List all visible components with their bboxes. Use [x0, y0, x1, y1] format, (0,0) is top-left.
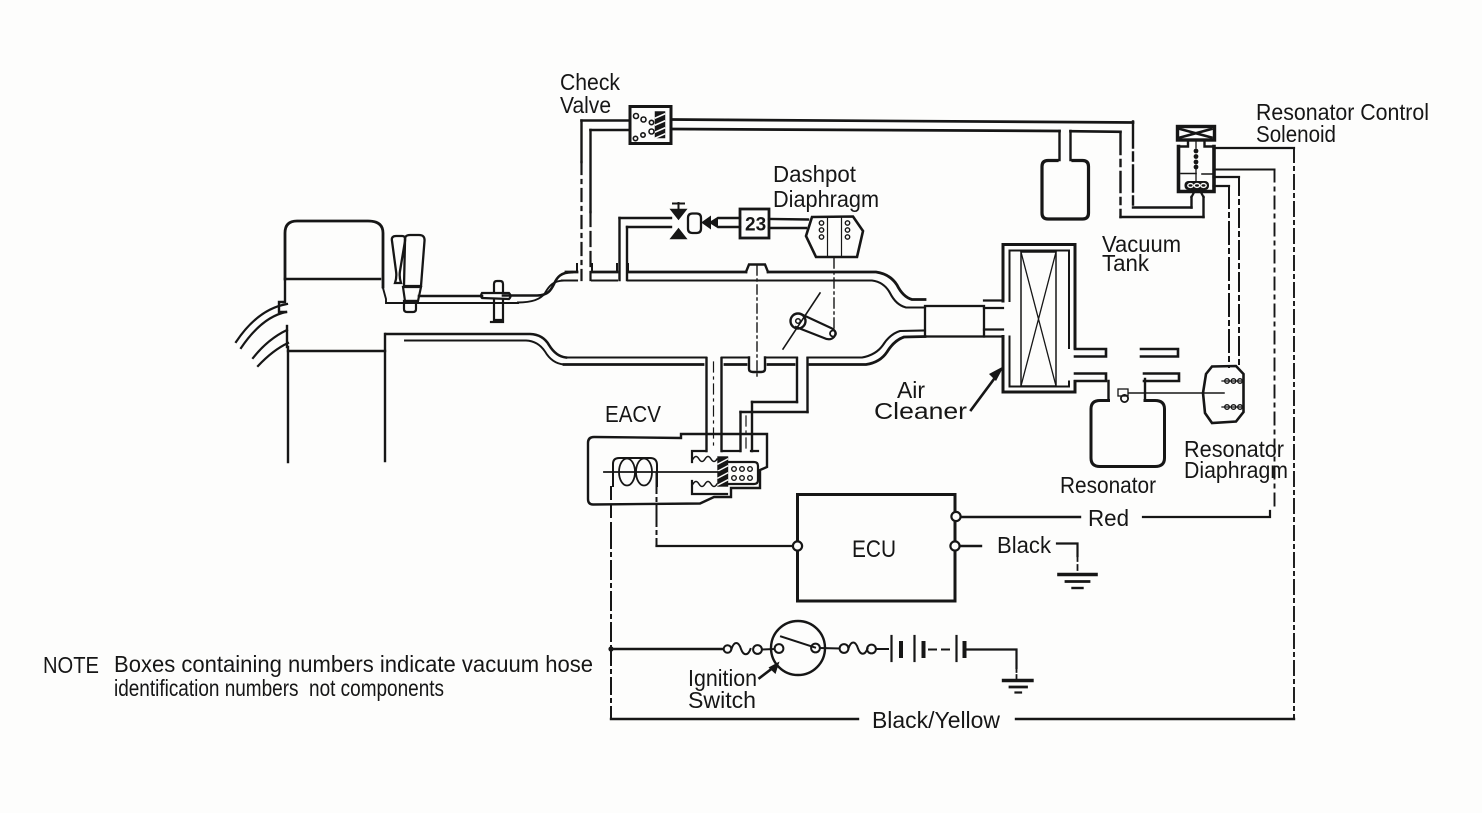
- svg-text:Resonator: Resonator: [1060, 472, 1156, 498]
- throttle lever arm: [796, 315, 835, 339]
- EACV wavy springs: [693, 457, 717, 462]
- svg-text:Diaphragm: Diaphragm: [1184, 457, 1288, 483]
- wire from distributor to throttle upper: [419, 295, 482, 298]
- check valve left wires: [582, 121, 631, 131]
- resonator linkage fitting: [1118, 389, 1128, 396]
- plenum top port bump: [746, 265, 768, 273]
- svg-text:ECU: ECU: [852, 536, 896, 563]
- vacuum tank inlet: [1060, 131, 1071, 160]
- svg-text:identification numbers not co: identification numbers not components: [114, 675, 444, 701]
- EACV coil: [613, 458, 657, 486]
- ECU terminals: [793, 541, 802, 550]
- tube to air cleaner: [984, 301, 1003, 337]
- solenoid top cap with X: [1178, 127, 1215, 141]
- svg-text:NOTE: NOTE: [43, 652, 99, 678]
- black/yellow wire: [611, 718, 1294, 720]
- dashpot diaphragm: [806, 217, 863, 258]
- svg-text:Boxes containing numbers indic: Boxes containing numbers indicate vacuum…: [114, 651, 593, 677]
- solenoid hose to resonator diaphragm: [1214, 177, 1240, 186]
- svg-text:Dashpot: Dashpot: [773, 161, 857, 187]
- resonator diaphragm hexagon: [1203, 366, 1244, 423]
- ground under black: [1059, 573, 1096, 577]
- engine lower runner to plenum throat bottom: [386, 334, 566, 358]
- solenoid wire to red: [1214, 169, 1275, 171]
- engine valve cover: [285, 221, 383, 287]
- resonator neck circle: [1121, 395, 1128, 402]
- solenoid body: [1179, 147, 1215, 192]
- throttle lever pivot: [791, 314, 806, 329]
- cross fitting lens: [481, 293, 511, 299]
- wire continues to plenum throat upper: [503, 272, 572, 295]
- fuse wave 2: [849, 643, 868, 654]
- port B collar ticks: [617, 264, 628, 272]
- tube coupler box: [925, 306, 984, 337]
- fuse c-circle: [724, 645, 732, 653]
- resonator body: [1091, 401, 1165, 467]
- throttle lever thin diagonal: [783, 293, 820, 349]
- air cleaner arrow: [971, 375, 997, 410]
- bowtie valve: [671, 210, 686, 220]
- battery: [890, 636, 892, 661]
- ignition switch circle: [771, 621, 825, 675]
- ECU box: [798, 495, 956, 602]
- EACV coil wire: [604, 471, 718, 473]
- plenum centre dash-dot line: [756, 266, 758, 380]
- hose corner down to solenoid bottom: [1132, 122, 1134, 208]
- svg-text:Valve: Valve: [560, 92, 611, 118]
- ground right: [1004, 679, 1033, 682]
- wire EACV to black/yellow row: [610, 649, 612, 719]
- dashpot hose pair from manifold port B: [620, 218, 628, 280]
- solenoid divider: [1181, 173, 1212, 176]
- svg-text:Diaphragm: Diaphragm: [773, 186, 879, 212]
- solenoid wire to black/yellow: [1214, 147, 1295, 149]
- svg-text:Solenoid: Solenoid: [1256, 121, 1336, 147]
- arrow to switch: [760, 667, 775, 678]
- svg-text:Cleaner: Cleaner: [874, 398, 967, 424]
- resonator linkage line: [1129, 392, 1224, 394]
- plenum top wall inner: [562, 281, 925, 308]
- EACV outline: [588, 434, 767, 505]
- manifold port2 hose jog to EACV: [797, 358, 808, 412]
- port A collar ticks: [577, 264, 592, 272]
- solenoid pellet band: [1185, 181, 1210, 190]
- hose to dashpot diaphragm: [769, 219, 808, 228]
- check valve hoses from manifold: [580, 121, 582, 163]
- solenoid coil dots: [1194, 149, 1199, 154]
- EACV wire A down to ignition row: [610, 487, 612, 530]
- engine intake curved hoses lower pair: [253, 330, 287, 358]
- EACV terminal block: [728, 462, 759, 484]
- svg-text:23: 23: [745, 215, 766, 236]
- double chevrons: [702, 217, 711, 229]
- vacuum tank: [1042, 161, 1089, 220]
- dash-dot line dashpot to lever: [833, 258, 835, 331]
- distributor connector block: [403, 287, 421, 301]
- svg-text:Red: Red: [1088, 505, 1129, 531]
- solenoid funnel: [1192, 192, 1204, 198]
- terminal circles: [753, 645, 762, 654]
- wire to ground: [967, 650, 1017, 669]
- cross fitting on wire: [494, 281, 503, 292]
- plenum top wall outer: [566, 272, 925, 300]
- plenum bottom wall inner: [566, 331, 925, 358]
- resonator neck: [1109, 379, 1146, 400]
- engine block left edge and notch: [279, 279, 286, 312]
- svg-text:Black: Black: [997, 532, 1051, 558]
- EACV inner box: [692, 451, 758, 494]
- dashpot valve body: [688, 214, 701, 234]
- check valve box: [630, 107, 671, 144]
- engine block verticals: [286, 326, 288, 347]
- EACV wire B down to ECU: [656, 473, 658, 546]
- manifold port1 hose down to EACV: [707, 358, 722, 451]
- switch blade: [781, 637, 815, 648]
- plenum bottom wall outer: [564, 337, 925, 365]
- ignition row wire: [611, 648, 723, 650]
- black wire: [960, 545, 981, 547]
- distributor lower stub: [404, 301, 416, 312]
- EACV hatched connector: [718, 457, 728, 486]
- snorkel upper plate: [1075, 349, 1106, 357]
- top hose pair to right: [671, 120, 1133, 123]
- air cleaner inner box: [1010, 251, 1070, 387]
- hose to 23 box: [719, 218, 740, 227]
- junction dot: [608, 646, 613, 651]
- box 23: [740, 209, 769, 238]
- svg-text:EACV: EACV: [605, 401, 662, 427]
- check valve circles: [634, 114, 639, 119]
- air cleaner filter element: [1021, 252, 1056, 386]
- fuse wave 1: [732, 643, 751, 654]
- diaphragm inner rows: [1222, 381, 1243, 407]
- check valve hatch bar: [656, 112, 665, 138]
- svg-text:Switch: Switch: [688, 687, 756, 713]
- solenoid neck: [1179, 140, 1214, 147]
- svg-text:Black/Yellow: Black/Yellow: [872, 707, 1000, 733]
- engine intake curved hoses upper pair: [236, 304, 287, 342]
- plenum bottom port bump: [749, 358, 765, 373]
- distributor prongs on cover: [392, 236, 405, 283]
- svg-text:Tank: Tank: [1102, 250, 1149, 276]
- snorkel lower plate: [1075, 374, 1106, 382]
- red wire: [961, 516, 1080, 518]
- air cleaner outer box: [1003, 245, 1075, 393]
